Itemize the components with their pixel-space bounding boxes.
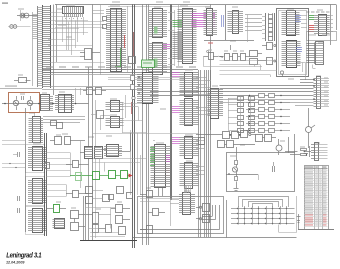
wire top-left extra [48, 22, 92, 51]
IC D42 tape boxes c [111, 205, 130, 235]
IC D27 AY lower [282, 41, 303, 68]
wire counter lattice [196, 78, 211, 175]
transistor VT3 [306, 108, 316, 148]
capacitor C8 [18, 196, 20, 201]
buffer G2 green [93, 172, 100, 180]
connector X3 [306, 42, 324, 69]
IC D4 ROM [26, 177, 47, 206]
wire connector left pin stubs [33, 12, 38, 86]
label scattered texts [18, 2, 323, 210]
IC D3 ROM [26, 144, 47, 173]
wire D26 to connector [301, 16, 307, 28]
IC D14 small boxes [83, 88, 106, 95]
IC D45 small box top-left [80, 49, 100, 60]
resistor R32 [148, 209, 165, 216]
IC D43 tape decoder [170, 186, 195, 226]
wire D46 pin drops [67, 17, 84, 55]
transistor VT7 [280, 71, 283, 77]
label green highlight box [142, 60, 155, 68]
buffer G3 green [109, 171, 116, 179]
component column D24 [262, 13, 275, 41]
IC D23 [228, 7, 244, 34]
resistor R30 [140, 191, 153, 198]
wire magenta bundle a [172, 73, 180, 77]
IC D35 video counter c [180, 135, 199, 159]
module power supply box [9, 93, 40, 113]
IC D8 green highlighted [47, 205, 66, 213]
wire mid bridge y133 [130, 133, 198, 135]
IC D30 regulator [41, 95, 54, 111]
ground video [234, 189, 239, 191]
wire long bus to right connector [150, 80, 314, 106]
wire dark data bus pair [133, 5, 135, 249]
wire magenta bundle a2 [172, 107, 180, 113]
IC D17 CPU buffer [173, 6, 197, 64]
wire red clock arrow [129, 174, 133, 178]
connector X1 edge connector ladder [38, 5, 51, 88]
buffer G1 light green [76, 173, 82, 181]
wire table base line [298, 229, 334, 231]
connector X5 RGB out [285, 143, 328, 161]
IC D33 video counter a [180, 70, 199, 97]
wire green video line [115, 48, 121, 67]
wire blue lines [222, 15, 224, 27]
capacitor C1 C2 [8, 25, 31, 29]
label title Leningrad 3.1 [6, 252, 41, 260]
IC D46 horizontal IC top [63, 5, 84, 20]
IC D32 small boxes lower [45, 163, 133, 204]
capacitor C7 [13, 152, 20, 157]
module video output box [227, 134, 295, 192]
IC D16 shift register [150, 143, 171, 197]
wire magenta bundle c [166, 156, 170, 162]
label red note [208, 43, 213, 44]
wire right section vertical pairs [199, 70, 211, 237]
resistor R21 [235, 177, 238, 189]
capacitor C15 C16 ram [103, 17, 107, 29]
resistor R40 squiggle [220, 45, 231, 57]
svg-text:Leningrad 3.1: Leningrad 3.1 [6, 252, 41, 260]
wire bottom-left connections [86, 208, 126, 237]
wire top-right stubs [245, 15, 262, 43]
wire power rail [2, 103, 41, 105]
capacitor C5 [20, 94, 25, 101]
gate D28a [262, 43, 276, 50]
wire top border bus [55, 5, 337, 46]
module wide box right [307, 32, 337, 41]
label corner note [2, 3, 8, 4]
wire vertical bus x88-x95 [89, 5, 96, 241]
IC D11 [53, 219, 65, 229]
wire vertical border x211 x220 [210, 5, 212, 131]
gate D44b [196, 215, 210, 223]
IC D18 latch pair [80, 147, 107, 159]
buffer G4 green [121, 171, 128, 179]
gate chain D38 [196, 131, 256, 148]
wire ram right rail [127, 6, 129, 72]
resistor R26 [290, 151, 307, 156]
capacitor C9 [18, 208, 20, 213]
transistor VT5 [232, 165, 237, 178]
capacitor C12 [273, 162, 275, 172]
ground symbol right [297, 214, 301, 229]
wire power box down [34, 113, 36, 136]
wire left vertical bus pair [54, 5, 57, 96]
resistor R1 [14, 78, 31, 83]
gate D28b [262, 58, 276, 65]
IC D15 multiplexer [137, 73, 159, 104]
IC D34 video counter b [180, 99, 199, 126]
gate chain D39 [256, 135, 277, 142]
transistor VT4 [276, 137, 289, 155]
wire buffers to cpu stubs [168, 10, 175, 66]
module AY sound box border [277, 9, 309, 77]
IC D36 video counter d [180, 163, 199, 189]
IC D12 gate block a [106, 99, 124, 112]
IC D26 upper [282, 9, 302, 36]
transistor VT1 [13, 96, 18, 110]
gate D44a [196, 204, 210, 212]
resistor R31 [140, 226, 153, 234]
IC D9-D16 RAM block [106, 6, 126, 72]
wire ram top feed [93, 5, 104, 75]
connector keyboard matrix loops [239, 197, 289, 208]
gate D7b [66, 191, 89, 198]
IC D6 gates [50, 135, 85, 145]
table parts list [304, 166, 329, 230]
connector X4 right middle [313, 77, 329, 109]
module tape IO box [133, 197, 297, 238]
IC D22 [204, 7, 218, 36]
wire bottom-left verticals [80, 196, 137, 241]
resistor R10 R11 pullups [131, 76, 135, 90]
gate D48 box [91, 111, 104, 119]
resistor R20 [235, 147, 238, 165]
IC D21 buffer [149, 43, 170, 75]
wire green clock chain [70, 175, 129, 177]
wire matrix output [279, 196, 297, 233]
wire ay area links [220, 61, 278, 78]
wire red ras line [125, 35, 132, 114]
wire center gate links [101, 95, 147, 133]
wire gate feed vertical [80, 141, 82, 188]
transistor VT8 small [132, 96, 135, 99]
crystal ZQ1 [17, 9, 38, 22]
node emitter junction [226, 173, 259, 180]
wire left edge links [2, 141, 26, 169]
wire magenta bus top [192, 14, 216, 27]
wire magenta bundle b [172, 138, 180, 144]
svg-text:12.04.2009: 12.04.2009 [6, 261, 25, 265]
wire nested corners [140, 205, 220, 230]
IC D10 pair boxes [71, 211, 86, 231]
IC D19 latch [93, 133, 146, 172]
diode matrix VD1-VD12 [246, 94, 290, 133]
IC D31 [50, 88, 89, 113]
wire tape box top links [140, 199, 179, 202]
IC D41 tape box b [99, 195, 114, 233]
wire signal label row [0, 67, 198, 90]
IC D5 [26, 207, 47, 235]
IC D1 decoder [29, 117, 86, 143]
gate D7a [66, 161, 89, 168]
wire vertical border dark pair x170 [171, 5, 179, 201]
label date [6, 261, 25, 265]
wire rom to center links [46, 153, 70, 197]
keyboard matrix grid [231, 206, 295, 225]
IC D37 comparator [208, 89, 224, 119]
transistor VT2 [27, 96, 32, 110]
IC D13 gate block b [106, 115, 124, 128]
wire mid-left connections [48, 22, 104, 63]
resistor R25 [301, 149, 307, 151]
wire vertical x224 and row y40 [204, 5, 254, 41]
IC D20 buffer [149, 7, 167, 38]
wire center address bus triple [143, 5, 149, 246]
wire ay to connector [297, 63, 306, 81]
wire top-left area stubs [48, 9, 88, 49]
wire mid horizontals y77 [108, 78, 198, 80]
wire center mid links [131, 130, 156, 195]
wire dark column pair [26, 108, 47, 236]
gate D2a [51, 121, 63, 129]
IC D40 tape boxes a [86, 213, 99, 233]
IC X2 keyboard controller [306, 12, 333, 36]
gate D47 box [124, 57, 136, 64]
resistor array RP1 [228, 96, 255, 133]
flip-flop chain D25 [204, 50, 263, 67]
